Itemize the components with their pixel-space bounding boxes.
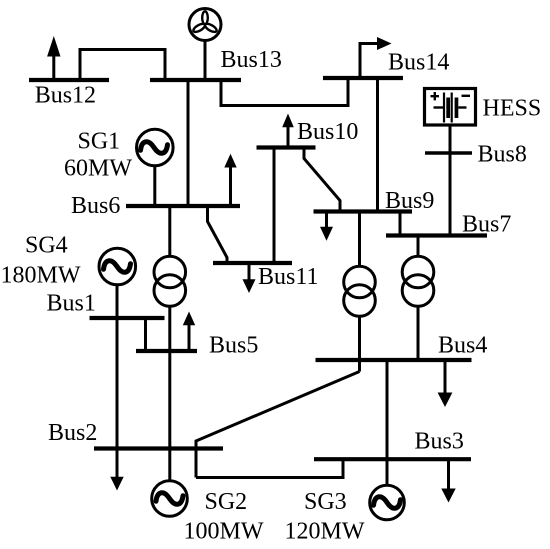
wire Bus2 to Bus4 (slant) [196, 372, 360, 478]
transformer T1 [344, 266, 376, 316]
bus Bus7 [386, 233, 487, 237]
svg-text:SG2: SG2 [205, 489, 248, 515]
wire SG1 to Bus6 [153, 165, 156, 206]
generator SG3 [370, 485, 405, 520]
wire Bus13 to Bus6 [187, 80, 190, 207]
wire Bus9 to transformer T1 [358, 212, 361, 267]
wire Bus6 to transformer T3 [168, 206, 171, 257]
svg-text:Bus9: Bus9 [385, 188, 434, 214]
svg-text:Bus13: Bus13 [221, 47, 282, 73]
bus Bus12 [29, 78, 109, 82]
svg-text:SG1: SG1 [78, 129, 121, 155]
wire Bus14 to Bus9 [376, 78, 379, 212]
svg-text:Bus1: Bus1 [47, 291, 96, 317]
svg-text:HESS: HESS [483, 96, 542, 122]
wire HESS to Bus8 to Bus7 [449, 125, 452, 236]
generator SG4 [99, 248, 136, 285]
wire Bus10 to Bus11 [273, 148, 276, 264]
bus Bus10 [257, 145, 316, 149]
svg-text:Bus11: Bus11 [258, 264, 318, 290]
svg-text:Bus2: Bus2 [48, 420, 97, 446]
svg-text:Bus7: Bus7 [462, 212, 511, 238]
svg-text:SG4: SG4 [25, 233, 68, 259]
transformer T3 [154, 256, 186, 306]
load arrow Bus6 [224, 154, 236, 207]
wind turbine WT [189, 9, 221, 41]
wire Bus10 to Bus9 (slant) [304, 148, 340, 212]
svg-text:120MW: 120MW [285, 519, 365, 545]
wire Bus6 to Bus11 (slant) [208, 207, 228, 264]
load arrow Bus4 [438, 360, 453, 407]
bus Bus5 [136, 349, 197, 353]
load arrow Bus2 [110, 449, 123, 491]
wire Bus9 to Bus7 [399, 212, 402, 236]
bus Bus3 [314, 457, 471, 461]
load arrow Bus12 [47, 36, 60, 80]
wire Bus7 to transformer T2 [417, 236, 420, 257]
bus Bus4 [316, 358, 472, 362]
wire T3 to Bus5 to Bus2 to SG2 [168, 306, 171, 481]
wire wind turbine to Bus13 [204, 41, 207, 80]
load arrow Bus14 [360, 37, 392, 78]
bus Bus9 [314, 209, 413, 213]
bus Bus6 [126, 204, 240, 208]
svg-text:Bus4: Bus4 [438, 333, 487, 359]
bus Bus8 [425, 151, 472, 155]
svg-text:180MW: 180MW [1, 263, 81, 289]
wire Bus4 to Bus3 to SG3 [386, 360, 389, 485]
load arrow Bus11 [243, 263, 256, 293]
wire T2 to Bus4 [417, 306, 420, 360]
HESS unit U-HESS [425, 89, 476, 126]
wire Bus1 to Bus5 [144, 318, 147, 351]
svg-text:Bus3: Bus3 [415, 429, 464, 455]
load arrow Bus10 [282, 114, 294, 148]
transformer T2 [402, 256, 434, 306]
wire Bus12 to Bus13 [80, 50, 165, 81]
svg-text:Bus12: Bus12 [35, 83, 96, 109]
load arrow Bus3 [441, 459, 455, 503]
bus Bus14 [323, 76, 403, 80]
bus Bus2 [94, 446, 223, 450]
svg-text:60MW: 60MW [64, 156, 132, 182]
wire Bus2 to Bus3 (step) [196, 459, 343, 477]
svg-text:100MW: 100MW [184, 519, 264, 545]
svg-text:Bus14: Bus14 [388, 50, 449, 76]
svg-text:Bus10: Bus10 [297, 119, 358, 145]
bus Bus1 [90, 316, 165, 320]
bus Bus13 [150, 78, 241, 82]
svg-text:Bus5: Bus5 [209, 333, 258, 359]
wire Bus13 to Bus14 [221, 78, 348, 106]
svg-text:SG3: SG3 [304, 489, 347, 515]
wire T1 to Bus4 [358, 316, 361, 372]
generator SG1 [137, 129, 174, 166]
svg-text:Bus8: Bus8 [478, 142, 527, 168]
wire SG4 to Bus1 to Bus2 [116, 285, 119, 449]
load arrow Bus5 [183, 312, 195, 352]
generator SG2 [152, 481, 188, 517]
svg-text:Bus6: Bus6 [71, 193, 120, 219]
load arrow Bus9 [320, 212, 333, 241]
bus Bus11 [213, 261, 292, 265]
